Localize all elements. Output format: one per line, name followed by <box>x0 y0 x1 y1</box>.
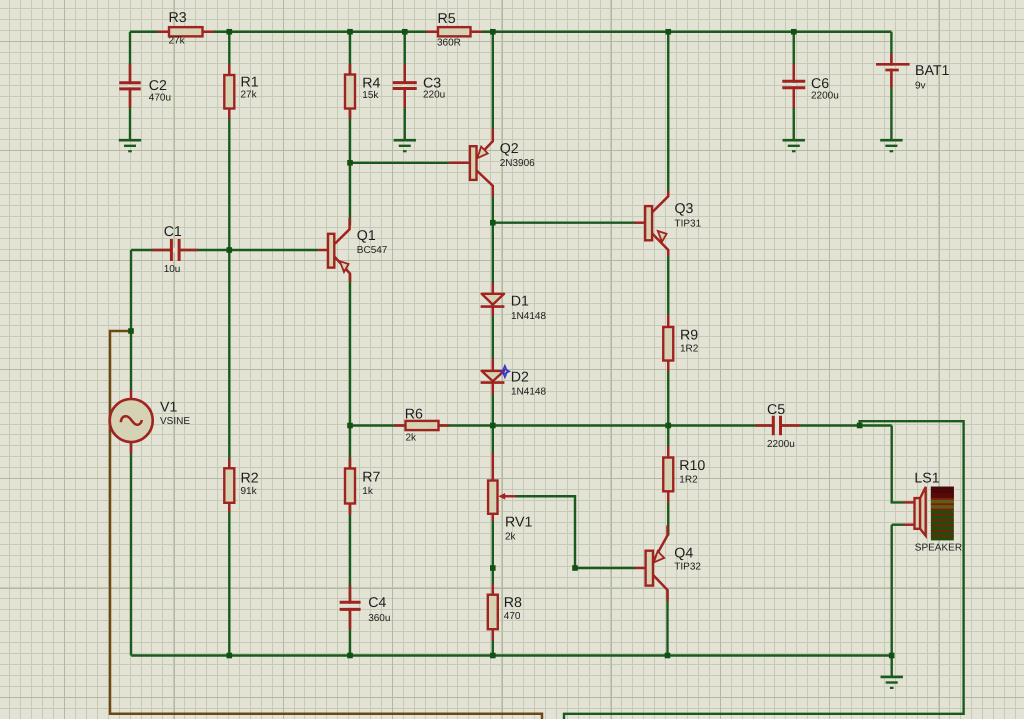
wire to bottom ground <box>891 656 893 677</box>
junction <box>889 653 895 659</box>
resistor R5 <box>438 27 471 36</box>
wire speaker - stub <box>892 524 904 526</box>
svg-text:Q1: Q1 <box>357 228 376 244</box>
svg-text:TIP31: TIP31 <box>675 218 702 229</box>
wire C1 right <box>180 249 230 251</box>
speaker LS1 <box>915 487 954 541</box>
resistor R4 <box>345 75 355 109</box>
svg-text:27k: 27k <box>241 90 258 101</box>
pin R1.2 <box>228 109 231 120</box>
junction <box>347 423 353 429</box>
ground (bottom) <box>881 677 903 688</box>
svg-text:470: 470 <box>504 611 521 622</box>
svg-text:R7: R7 <box>362 469 380 485</box>
svg-text:1R2: 1R2 <box>679 475 698 486</box>
junction <box>490 565 496 571</box>
pin R5.2 <box>471 31 483 34</box>
svg-text:RV1: RV1 <box>505 514 532 530</box>
pin C3.1 <box>404 65 407 83</box>
svg-text:BAT1: BAT1 <box>915 63 950 79</box>
pin R10.1 <box>667 446 670 458</box>
pin R4.2 <box>349 109 352 120</box>
pin R9.1 <box>667 315 670 327</box>
pin BAT1.- <box>890 71 893 87</box>
svg-text:2N3906: 2N3906 <box>500 158 535 169</box>
svg-text:Q2: Q2 <box>500 141 519 157</box>
resistor R3 <box>169 27 203 36</box>
pin D1.K <box>492 308 495 316</box>
diode D1 <box>481 294 505 307</box>
resistor R8 <box>488 595 498 630</box>
pin D2.K <box>492 384 495 395</box>
svg-text:R10: R10 <box>679 458 705 474</box>
pin R5.1 <box>426 31 438 34</box>
svg-text:D2: D2 <box>511 370 529 386</box>
pin C1.2 <box>179 249 198 252</box>
junction <box>227 247 233 253</box>
capacitor C4 <box>340 602 361 609</box>
junction <box>665 423 671 429</box>
svg-text:Q3: Q3 <box>675 201 694 217</box>
wire Q3 emitter / R9 / R10 column <box>667 250 669 536</box>
transistor Q2 <box>470 129 493 197</box>
svg-text:VSINE: VSINE <box>160 416 190 427</box>
wire C6 branch <box>793 32 795 140</box>
svg-text:2k: 2k <box>406 432 418 443</box>
pin D2.A <box>492 359 495 371</box>
pin Q1.B <box>318 249 328 252</box>
ground (C3) <box>394 140 416 151</box>
pin R3.2 <box>203 31 215 34</box>
junction <box>402 29 408 35</box>
transistor Q3 <box>645 191 668 256</box>
pin R9.2 <box>667 361 670 372</box>
svg-text:D1: D1 <box>511 294 529 310</box>
svg-text:TIP32: TIP32 <box>674 562 701 573</box>
svg-text:1N4148: 1N4148 <box>511 386 546 397</box>
pin R8.2 <box>492 629 495 640</box>
junction <box>490 29 496 35</box>
svg-text:LS1: LS1 <box>914 471 939 487</box>
svg-text:SPEAKER: SPEAKER <box>915 543 962 554</box>
svg-text:15k: 15k <box>362 90 379 101</box>
svg-text:2k: 2k <box>505 532 517 543</box>
pin R4.1 <box>349 64 352 75</box>
resistor R10 <box>663 458 673 492</box>
svg-text:360u: 360u <box>368 613 390 624</box>
pin C4.2 <box>349 609 352 629</box>
pin R7.1 <box>349 458 352 469</box>
battery BAT1 <box>876 64 910 70</box>
pin C6.1 <box>793 64 796 81</box>
svg-text:2200u: 2200u <box>767 439 795 450</box>
wire Q2 collector / D1 D2 / RV1 / R8 column <box>492 186 494 656</box>
svg-text:1R2: 1R2 <box>680 344 699 355</box>
pin C3.2 <box>404 89 407 109</box>
wire Q4 collector to bottom rail <box>666 590 668 656</box>
pin D1.A <box>492 283 495 294</box>
pin RV1.2 <box>492 514 495 521</box>
resistor R6 <box>406 421 439 430</box>
junction <box>227 29 233 35</box>
resistor R9 <box>663 327 673 361</box>
svg-text:V1: V1 <box>160 399 177 415</box>
wire top rail to Q3 collector <box>667 32 669 197</box>
svg-text:C5: C5 <box>767 402 785 418</box>
svg-text:9v: 9v <box>915 81 926 92</box>
pin C1.1 <box>153 249 172 252</box>
junction <box>665 29 671 35</box>
wire bottom ground rail <box>131 654 892 656</box>
junction <box>128 328 134 334</box>
wire Q4 base <box>575 567 635 569</box>
junction <box>347 160 353 166</box>
pin Q2.B <box>449 162 470 165</box>
wire R4 to Q1 collector <box>349 32 351 226</box>
wire output to right feedback loop <box>564 421 964 719</box>
ground (BAT1) <box>880 140 902 151</box>
wire speaker - to ground rail <box>891 525 893 656</box>
pin LS1.1 <box>904 501 915 504</box>
capacitor C1 <box>171 239 179 261</box>
pin LS1.2 <box>904 523 915 526</box>
svg-text:R8: R8 <box>504 595 522 611</box>
pin C5.1 <box>756 424 774 427</box>
junction <box>227 653 233 659</box>
wire RV1 wiper <box>516 496 576 568</box>
svg-text:360R: 360R <box>437 37 461 48</box>
diode D2 <box>481 371 505 383</box>
pin RV1.1 <box>492 453 495 481</box>
wire R1-R2 column <box>228 32 230 656</box>
svg-text:R3: R3 <box>169 10 187 26</box>
wire C2 branch <box>129 32 131 140</box>
capacitor C2 <box>119 83 141 89</box>
pin R8.1 <box>492 584 495 595</box>
pin R6.2 <box>439 424 450 427</box>
pin R6.1 <box>394 424 406 427</box>
resistor R7 <box>345 469 355 504</box>
junction <box>665 653 671 659</box>
svg-text:10u: 10u <box>164 264 181 275</box>
wire R5 node to Q2 emitter <box>492 32 494 141</box>
pin C4.1 <box>349 585 352 602</box>
wire Q1 base <box>229 249 318 251</box>
pin R1.1 <box>228 64 231 75</box>
svg-text:R5: R5 <box>438 11 456 27</box>
pin R7.2 <box>349 504 352 515</box>
wire mid output rail <box>350 424 892 426</box>
pin V1.- <box>130 442 133 454</box>
wire to speaker + <box>892 426 904 503</box>
pin R10.2 <box>667 491 670 503</box>
pin BAT1.+ <box>890 54 893 63</box>
source V1 (VSINE) <box>110 399 153 442</box>
pin V1.+ <box>130 390 133 399</box>
pin R3.1 <box>158 31 170 34</box>
svg-text:2200u: 2200u <box>811 90 839 101</box>
svg-text:BC547: BC547 <box>357 245 388 256</box>
svg-text:C1: C1 <box>164 224 182 240</box>
transistor Q4 <box>646 526 668 602</box>
junction <box>347 653 353 659</box>
junction <box>791 29 797 35</box>
junction <box>490 653 496 659</box>
junction <box>490 220 496 226</box>
svg-text:27k: 27k <box>169 36 186 47</box>
transistor Q1 <box>328 218 350 282</box>
potentiometer RV1 <box>488 481 516 514</box>
ground (C2) <box>119 140 141 151</box>
svg-text:220u: 220u <box>423 90 445 101</box>
svg-text:1N4148: 1N4148 <box>511 311 546 322</box>
wire Q2 base <box>350 162 449 164</box>
pin C5.2 <box>781 424 800 427</box>
pin Q3.B <box>635 221 646 224</box>
wire C1 left <box>131 249 171 251</box>
svg-text:R6: R6 <box>405 407 423 423</box>
wire BAT1 branch <box>890 32 892 140</box>
wire Q1 emitter to R7-C4 column <box>349 274 351 656</box>
svg-text:C4: C4 <box>368 595 386 611</box>
capacitor C6 <box>782 81 805 88</box>
capacitor C5 <box>773 416 780 436</box>
wire input tap (brown) <box>110 331 542 719</box>
svg-text:R1: R1 <box>241 74 259 90</box>
wire Q3 base <box>493 221 635 223</box>
marker origin (blue) <box>501 366 510 378</box>
resistor R1 <box>224 75 234 109</box>
pin R2.2 <box>228 503 231 513</box>
pin C6.2 <box>793 88 796 108</box>
wire V1 to bottom rail <box>130 442 132 656</box>
pin C2.1 <box>129 64 132 83</box>
pin C2.2 <box>129 89 132 108</box>
junction <box>572 565 578 571</box>
svg-text:1k: 1k <box>362 486 374 497</box>
ground (C6) <box>783 140 805 151</box>
svg-text:R2: R2 <box>241 471 259 487</box>
svg-text:R9: R9 <box>680 328 698 344</box>
junction <box>490 423 496 429</box>
pin R2.1 <box>228 459 231 469</box>
junction <box>857 423 863 429</box>
pin Q4.B <box>635 567 646 570</box>
wire C3 branch <box>404 32 406 140</box>
capacitor C3 <box>393 83 417 89</box>
wire C1 corner to V1 <box>130 250 132 390</box>
resistor R2 <box>224 468 234 503</box>
svg-text:91k: 91k <box>241 486 258 497</box>
junction <box>347 29 353 35</box>
wire +9V top rail <box>130 31 891 33</box>
svg-text:Q4: Q4 <box>674 546 693 562</box>
svg-text:470u: 470u <box>149 93 171 104</box>
